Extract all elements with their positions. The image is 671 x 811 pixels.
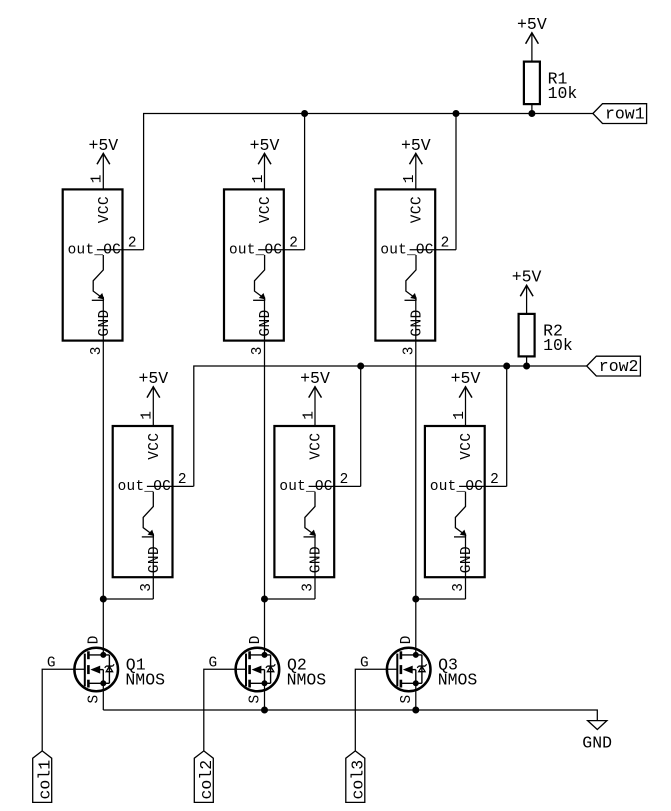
wire U3 pin3 to Q3 drain (415, 297, 417, 655)
wire (314, 386, 316, 426)
arrow head (410, 154, 423, 165)
wire U1 pin3 to Q1 drain (102, 297, 104, 655)
svg-text:+5V: +5V (250, 136, 280, 155)
net flag col2 (194, 751, 216, 803)
node row2-U5 (358, 363, 364, 369)
svg-text:out_OC: out_OC (380, 243, 433, 259)
gate bar (396, 654, 398, 687)
net flag col1 (33, 751, 55, 803)
node Q3 source (413, 707, 419, 713)
wire (264, 153, 266, 189)
svg-text:VCC: VCC (459, 433, 475, 460)
open-collector symbol (255, 255, 265, 298)
svg-text:+5V: +5V (401, 136, 431, 155)
open-collector sensor U3 (row1) (375, 175, 456, 356)
node drain col1 (100, 596, 106, 602)
power +5V (R1) (517, 15, 547, 61)
wire (152, 386, 154, 426)
svg-text:+5V: +5V (451, 369, 481, 388)
wire (415, 153, 417, 189)
source link (88, 682, 109, 684)
power +5V (U3) (401, 136, 431, 190)
svg-text:VCC: VCC (409, 196, 425, 223)
body outline (425, 426, 485, 577)
bulk arrow (92, 666, 100, 673)
svg-text:col2: col2 (197, 760, 216, 800)
svg-text:out_OC: out_OC (279, 479, 332, 495)
node Q2 source (262, 707, 268, 713)
node row1-R1 (529, 111, 535, 117)
wire (531, 32, 533, 61)
node drain col3 (413, 596, 419, 602)
svg-text:+5V: +5V (512, 268, 542, 287)
svg-text:2: 2 (178, 472, 187, 488)
wire R1 to row1 (531, 104, 533, 113)
gate bar (84, 654, 86, 687)
wire Q2 source (264, 683, 266, 710)
node drain col2 (262, 596, 268, 602)
body diode (108, 655, 110, 683)
svg-text:out_OC: out_OC (430, 479, 483, 495)
svg-text:2: 2 (128, 235, 137, 251)
wire Q1 source (102, 683, 104, 710)
wire (526, 285, 528, 315)
svg-text:1: 1 (90, 175, 106, 184)
wire join col2 drains (265, 598, 316, 600)
gate bar (245, 654, 247, 687)
transistor Q1 NMOS (74, 636, 165, 704)
wire source net (103, 710, 597, 721)
svg-text:1: 1 (301, 411, 317, 420)
body diode (270, 655, 272, 683)
transistor Q3 NMOS (387, 636, 478, 704)
svg-text:col1: col1 (36, 760, 55, 800)
svg-text:1: 1 (140, 411, 156, 420)
svg-text:NMOS: NMOS (125, 671, 165, 690)
svg-text:3: 3 (139, 583, 155, 592)
svg-text:3: 3 (89, 347, 105, 356)
svg-text:3: 3 (401, 347, 417, 356)
body diode (421, 655, 423, 683)
svg-text:VCC: VCC (147, 433, 163, 460)
svg-text:+5V: +5V (88, 136, 118, 155)
wire pin 2 stub (459, 485, 507, 487)
wire (102, 153, 104, 189)
arrow head (520, 285, 533, 296)
wire U5 pin3 down (314, 534, 316, 600)
svg-text:out_OC: out_OC (229, 243, 282, 259)
arrow head (309, 387, 322, 398)
wire col1 to Q1 gate (42, 669, 85, 751)
junction dots (262, 652, 267, 657)
resistor R1 10k (524, 62, 578, 105)
svg-text:D: D (87, 636, 103, 645)
svg-text:1: 1 (452, 411, 468, 420)
body outline (274, 426, 334, 577)
wire (465, 386, 467, 426)
flag outline (593, 104, 647, 124)
source link (250, 682, 271, 684)
transistor Q2 NMOS (236, 636, 327, 704)
node row2-U6 (504, 363, 510, 369)
wire join col3 drains (416, 598, 466, 600)
open-collector symbol (455, 492, 465, 535)
resistor R2 10k (519, 314, 573, 357)
svg-text:row2: row2 (599, 357, 639, 376)
wire U6 pin3 down (465, 534, 467, 600)
channel bars (400, 651, 403, 659)
arrow head (147, 387, 160, 398)
power +5V (R2) (512, 268, 542, 315)
wire pin 2 stub (309, 485, 361, 487)
svg-text:NMOS: NMOS (287, 671, 327, 690)
svg-text:+5V: +5V (517, 15, 547, 34)
power +5V (U2) (250, 136, 280, 190)
svg-text:GND: GND (97, 309, 113, 336)
wire U3 pin2 riser (455, 114, 457, 250)
svg-text:GND: GND (309, 546, 325, 573)
svg-text:S: S (86, 695, 102, 704)
svg-text:VCC: VCC (309, 433, 325, 460)
body R2 (519, 314, 535, 357)
svg-text:+5V: +5V (300, 369, 330, 388)
svg-text:+5V: +5V (138, 369, 168, 388)
wire row1 net (144, 114, 593, 250)
wire U5 pin2 riser (360, 366, 362, 486)
svg-text:GND: GND (459, 546, 475, 573)
svg-text:D: D (248, 636, 264, 645)
open-collector sensor U6 (row2) (425, 411, 507, 592)
flag outline (346, 751, 365, 803)
node row2-R2 (524, 363, 530, 369)
arrow head (526, 33, 539, 44)
wire col3 to Q3 gate (355, 669, 397, 751)
flag outline (33, 751, 52, 803)
body R1 (524, 62, 540, 105)
svg-text:GND: GND (409, 309, 425, 336)
wire Q3 source (415, 683, 417, 710)
wire U4 pin3 down (152, 534, 154, 600)
source link (401, 682, 422, 684)
open-collector symbol (406, 255, 416, 298)
bulk arrow (404, 666, 412, 673)
svg-text:S: S (248, 695, 264, 704)
svg-text:GND: GND (258, 309, 274, 336)
body circle (387, 648, 431, 692)
power +5V (U6) (451, 369, 481, 426)
wire col2 to Q2 gate (204, 669, 246, 751)
svg-text:2: 2 (490, 472, 499, 488)
body outline (63, 189, 123, 340)
svg-text:GND: GND (147, 546, 163, 573)
svg-text:GND: GND (582, 734, 612, 753)
drain link (88, 654, 109, 656)
junction dots (101, 652, 106, 657)
body outline (224, 189, 284, 340)
power +5V (U4) (138, 369, 168, 426)
open-collector sensor U5 (row2) (274, 411, 360, 592)
svg-text:VCC: VCC (258, 196, 274, 223)
open-collector symbol (143, 492, 153, 535)
channel bars (248, 651, 251, 659)
svg-text:3: 3 (301, 583, 317, 592)
drain link (401, 654, 422, 656)
body circle (236, 648, 280, 692)
power +5V (U5) (300, 369, 330, 426)
channel bars (87, 651, 90, 659)
open-collector symbol (305, 492, 315, 535)
svg-text:S: S (399, 695, 415, 704)
flag outline (194, 751, 213, 803)
drain link (250, 654, 271, 656)
arrow head (459, 387, 472, 398)
wire pin 2 stub (97, 249, 144, 251)
svg-text:10k: 10k (543, 336, 573, 355)
svg-text:2: 2 (441, 235, 450, 251)
svg-text:out_OC: out_OC (118, 479, 171, 495)
node row1-U3 (453, 111, 459, 117)
wire U2 pin3 to Q2 drain (264, 297, 266, 655)
svg-text:out_OC: out_OC (68, 243, 121, 259)
svg-text:3: 3 (451, 583, 467, 592)
open-collector sensor U1 (row1) (63, 175, 144, 356)
body circle (74, 648, 118, 692)
svg-text:1: 1 (251, 175, 267, 184)
svg-text:2: 2 (289, 235, 298, 251)
svg-text:1: 1 (402, 175, 418, 184)
wire join col1 drains (103, 598, 153, 600)
node row1-U2 (302, 111, 308, 117)
bulk arrow (253, 666, 261, 673)
net flag row2 (587, 356, 641, 376)
net flag col3 (346, 751, 368, 803)
svg-text:D: D (399, 636, 415, 645)
wire pin 2 stub (147, 485, 194, 487)
wire pin 2 stub (258, 249, 304, 251)
flag outline (587, 356, 641, 376)
power +5V (U1) (88, 136, 118, 190)
net flag row1 (593, 104, 647, 124)
svg-text:G: G (360, 655, 369, 671)
ground triangle (588, 721, 607, 730)
open-collector symbol (93, 255, 103, 298)
svg-text:G: G (47, 655, 56, 671)
svg-text:row1: row1 (605, 105, 645, 124)
ground GND (582, 721, 612, 753)
junction dots (413, 652, 418, 657)
wire row2 net (194, 366, 587, 486)
svg-text:3: 3 (250, 347, 266, 356)
svg-text:col3: col3 (349, 760, 368, 800)
body outline (113, 426, 173, 577)
body outline (375, 189, 435, 340)
svg-text:2: 2 (340, 472, 349, 488)
svg-text:NMOS: NMOS (438, 671, 478, 690)
open-collector sensor U4 (row2) (113, 411, 194, 592)
svg-text:VCC: VCC (97, 196, 113, 223)
svg-text:G: G (209, 655, 218, 671)
svg-text:10k: 10k (548, 84, 578, 103)
wire U2 pin2 riser (304, 114, 306, 250)
wire R2 to row2 (526, 356, 528, 366)
wire U6 pin2 riser (506, 366, 508, 486)
open-collector sensor U2 (row1) (224, 175, 305, 356)
arrow head (97, 154, 110, 165)
wire pin 2 stub (410, 249, 456, 251)
arrow head (258, 154, 271, 165)
